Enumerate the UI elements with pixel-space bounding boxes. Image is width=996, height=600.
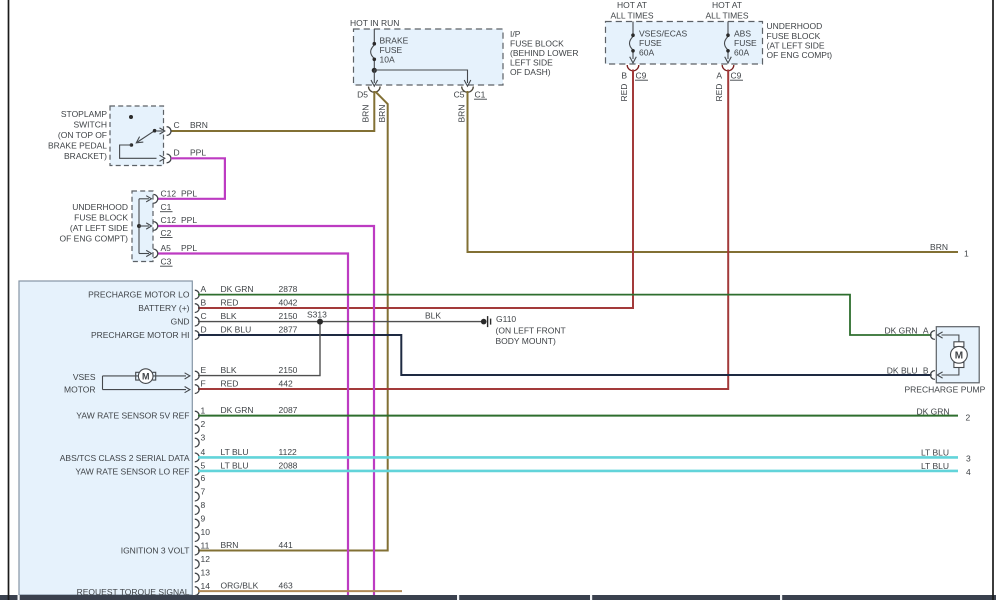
svg-text:BRN: BRN	[457, 105, 467, 123]
wire RED from A/C9 down to module pin F	[198, 70, 728, 390]
svg-text:2150: 2150	[279, 365, 298, 375]
svg-text:13: 13	[201, 567, 211, 577]
label HOT AT ALL TIMES (left)	[611, 0, 654, 21]
label I/P FUSE BLOCK (BEHIND LOWER LEFT SIDE OF DASH)	[510, 29, 578, 77]
wire DK GRN pin A to precharge pump A	[198, 295, 932, 335]
pin A5 arrow (C3)	[139, 250, 152, 256]
svg-text:7: 7	[201, 486, 206, 496]
underhood fuse block connectors (left, at left side of eng compt)	[132, 191, 153, 262]
svg-text:DK BLU: DK BLU	[887, 365, 918, 375]
svg-text:2: 2	[201, 419, 206, 429]
svg-text:DK GRN: DK GRN	[916, 406, 949, 416]
pin C arrow	[157, 128, 165, 134]
pin 6 connector arc	[195, 479, 199, 488]
svg-text:2087: 2087	[279, 405, 298, 415]
wire label 14: ORG/BLK 463	[221, 581, 293, 591]
svg-text:MOTOR: MOTOR	[64, 385, 95, 395]
wire label C: BLK 2150	[221, 311, 298, 321]
value label BRAKE FUSE 10A	[380, 36, 409, 65]
wire fuse output to D5 with arrow	[371, 70, 378, 86]
svg-text:ABS: ABS	[734, 28, 751, 38]
wire label 1: DK GRN 2087	[221, 405, 298, 415]
svg-text:PPL: PPL	[181, 243, 197, 253]
svg-text:LEFT SIDE: LEFT SIDE	[510, 58, 553, 68]
svg-text:C5: C5	[454, 90, 465, 100]
svg-text:FUSE: FUSE	[639, 38, 662, 48]
svg-text:FUSE BLOCK: FUSE BLOCK	[510, 39, 564, 49]
svg-text:PRECHARGE PUMP: PRECHARGE PUMP	[905, 385, 986, 395]
pin C12 connector arc (C2)	[153, 222, 157, 231]
precharge pump box	[936, 327, 979, 383]
svg-text:8: 8	[201, 500, 206, 510]
connector C5 of C1	[454, 87, 487, 100]
fuse VSES/ECAS FUSE 60A	[630, 22, 637, 64]
svg-text:I/P: I/P	[510, 29, 521, 39]
svg-text:UNDERHOOD: UNDERHOOD	[72, 202, 128, 212]
pin D arrow	[160, 155, 165, 161]
svg-text:VSES: VSES	[73, 372, 96, 382]
svg-text:11: 11	[201, 540, 210, 550]
svg-text:PRECHARGE MOTOR LO: PRECHARGE MOTOR LO	[88, 290, 190, 300]
svg-text:VSES/ECAS: VSES/ECAS	[639, 28, 688, 38]
svg-text:B: B	[201, 298, 207, 308]
svg-text:HOT IN RUN: HOT IN RUN	[350, 18, 399, 28]
svg-text:C9: C9	[731, 71, 742, 81]
svg-text:B: B	[923, 365, 929, 375]
svg-text:F: F	[201, 379, 206, 389]
pump internal wire motor to pin B	[942, 368, 959, 376]
svg-text:4042: 4042	[279, 298, 298, 308]
fuse BRAKE FUSE 10A	[371, 29, 376, 70]
wire BRN from C5 to right edge (exit 1)	[468, 91, 959, 252]
svg-text:C12: C12	[161, 215, 177, 225]
svg-text:BLK: BLK	[425, 310, 441, 320]
wire DK GRN pin 1 to right edge (exit 2)	[198, 415, 958, 417]
switch contact dot at pin C	[153, 129, 157, 133]
pin C connector arc	[195, 317, 199, 326]
I/P fuse block (behind lower left side of dash)	[354, 29, 504, 85]
pin D connector arc	[195, 331, 199, 340]
svg-text:FUSE: FUSE	[380, 45, 403, 55]
label UNDERHOOD FUSE BLOCK (AT LEFT SIDE OF ENG COMPt)	[767, 21, 833, 60]
fuse ABS FUSE 60A	[725, 22, 732, 64]
value label VSES/ECAS FUSE 60A	[639, 28, 688, 57]
svg-text:(AT LEFT SIDE: (AT LEFT SIDE	[767, 40, 825, 50]
svg-text:4: 4	[966, 467, 971, 477]
pin letter labels A-F	[201, 284, 207, 389]
pump pin B arrow	[937, 372, 942, 378]
switch contact dot (upper)	[129, 115, 133, 119]
svg-text:3: 3	[966, 454, 971, 464]
svg-text:LT BLU: LT BLU	[921, 461, 949, 471]
wire fuse output to C5 with arrow	[374, 70, 471, 86]
svg-text:(BEHIND LOWER: (BEHIND LOWER	[510, 48, 578, 58]
svg-text:YAW RATE SENSOR 5V REF: YAW RATE SENSOR 5V REF	[76, 411, 189, 421]
svg-text:RED: RED	[714, 84, 724, 102]
pin 7 connector arc	[195, 492, 199, 501]
wire BLK pin E up to S313	[198, 325, 320, 376]
internal bus wire	[138, 199, 140, 254]
svg-text:(ON TOP OF: (ON TOP OF	[58, 130, 107, 140]
connector B of C9	[621, 65, 648, 81]
svg-text:463: 463	[279, 581, 293, 591]
splice S313	[307, 310, 327, 325]
svg-text:2150: 2150	[279, 311, 298, 321]
svg-text:G110: G110	[496, 314, 516, 324]
svg-text:2877: 2877	[279, 325, 298, 335]
label pin C12 PPL of C2	[160, 215, 197, 238]
svg-text:ORG/BLK: ORG/BLK	[221, 581, 259, 591]
label VSES MOTOR	[64, 372, 96, 395]
svg-text:STOPLAMP: STOPLAMP	[61, 109, 107, 119]
svg-text:1: 1	[201, 405, 206, 415]
pin 11 connector arc	[195, 546, 199, 555]
EBCM module box	[19, 281, 192, 595]
svg-text:ABS/TCS CLASS 2 SERIAL DATA: ABS/TCS CLASS 2 SERIAL DATA	[60, 453, 190, 463]
junction dot on bus	[137, 224, 141, 228]
svg-text:441: 441	[279, 540, 293, 550]
svg-text:S313: S313	[307, 310, 327, 320]
svg-text:BLK: BLK	[221, 311, 237, 321]
wire label 11: BRN 441	[221, 540, 293, 550]
wire label 5: LT BLU 2088	[221, 460, 298, 470]
svg-text:C: C	[174, 120, 180, 130]
svg-text:UNDERHOOD: UNDERHOOD	[767, 21, 823, 31]
svg-text:ALL TIMES: ALL TIMES	[611, 11, 654, 21]
wire label F: RED 442	[221, 379, 293, 389]
svg-text:D: D	[201, 325, 207, 335]
pin 3 connector arc	[195, 438, 199, 447]
pin C12 arrow (C1)	[139, 196, 152, 202]
svg-text:A5: A5	[161, 243, 172, 253]
connector D5	[357, 87, 380, 100]
svg-text:LT BLU: LT BLU	[221, 460, 249, 470]
pin C connector arc	[167, 127, 171, 136]
pin 1 connector arc	[195, 411, 199, 420]
svg-text:2: 2	[966, 413, 971, 423]
wire PPL from switch D to underhood fuse block C12/C1	[158, 158, 225, 199]
svg-text:BRN: BRN	[361, 105, 371, 123]
svg-text:5: 5	[201, 461, 206, 471]
pin D connector arc	[167, 154, 171, 163]
svg-text:BATTERY (+): BATTERY (+)	[138, 303, 189, 313]
svg-text:HOT AT: HOT AT	[617, 0, 647, 10]
wire label D: DK BLU 2877	[221, 325, 298, 335]
pin F connector arc	[195, 385, 199, 394]
svg-text:442: 442	[279, 379, 293, 389]
pin 5 connector arc	[195, 467, 199, 476]
svg-text:PPL: PPL	[181, 215, 197, 225]
svg-text:FUSE BLOCK: FUSE BLOCK	[74, 213, 128, 223]
svg-text:RED: RED	[221, 298, 239, 308]
wire label 4: LT BLU 1122	[221, 447, 298, 457]
svg-text:60A: 60A	[734, 48, 749, 58]
wire label A: DK GRN 2878	[221, 284, 298, 294]
underhood fuse block (top right)	[606, 22, 763, 65]
label pin D PPL	[174, 147, 207, 157]
svg-text:4: 4	[201, 447, 206, 457]
svg-text:SWITCH: SWITCH	[73, 120, 107, 130]
svg-text:6: 6	[201, 473, 206, 483]
svg-text:BRAKE PEDAL: BRAKE PEDAL	[48, 141, 107, 151]
svg-text:IGNITION 3 VOLT: IGNITION 3 VOLT	[121, 546, 190, 556]
pin 2 connector arc	[195, 425, 199, 434]
svg-text:OF DASH): OF DASH)	[510, 67, 551, 77]
pin 10 connector arc	[195, 533, 199, 542]
svg-text:C1: C1	[161, 202, 172, 212]
svg-text:DK GRN: DK GRN	[884, 325, 917, 335]
stoplamp switch (on top of brake pedal bracket)	[110, 106, 164, 166]
svg-text:BRACKET): BRACKET)	[64, 151, 107, 161]
label STOPLAMP SWITCH (ON TOP OF BRAKE PEDAL BRACKET)	[48, 109, 107, 161]
pin 14 connector arc	[195, 587, 199, 596]
svg-text:D: D	[174, 147, 180, 157]
svg-text:A: A	[923, 325, 929, 335]
pin 13 connector arc	[195, 573, 199, 582]
pump pin B connector arc	[931, 371, 935, 380]
svg-text:B: B	[621, 71, 627, 81]
wire LT BLU pin 4 to right edge (exit 3)	[198, 456, 958, 459]
svg-text:A: A	[201, 284, 207, 294]
svg-text:12: 12	[201, 554, 211, 564]
svg-text:(AT LEFT SIDE: (AT LEFT SIDE	[70, 223, 128, 233]
svg-text:YAW RATE SENSOR LO REF: YAW RATE SENSOR LO REF	[75, 466, 189, 476]
pin 4 connector arc	[195, 453, 199, 462]
pin number labels 1-14	[201, 405, 211, 591]
svg-text:10A: 10A	[380, 55, 395, 65]
motor M symbol (VSES motor)	[136, 369, 156, 384]
module signal name labels	[60, 290, 190, 597]
svg-text:BODY MOUNT): BODY MOUNT)	[496, 336, 556, 346]
svg-text:(ON LEFT FRONT: (ON LEFT FRONT	[496, 325, 566, 335]
pin 9 connector arc	[195, 519, 199, 528]
svg-text:FUSE BLOCK: FUSE BLOCK	[767, 31, 821, 41]
ground G110 (on left front body mount)	[481, 314, 566, 346]
svg-text:BLK: BLK	[221, 365, 237, 375]
svg-text:2088: 2088	[279, 460, 298, 470]
svg-text:PPL: PPL	[190, 147, 206, 157]
svg-text:C: C	[201, 311, 207, 321]
wire BLK pin C to S313 and on to G110	[198, 321, 482, 323]
svg-text:BRN: BRN	[377, 105, 387, 123]
pin 12 connector arc	[195, 560, 199, 569]
svg-text:A: A	[716, 71, 722, 81]
svg-text:DK GRN: DK GRN	[221, 284, 254, 294]
svg-text:M: M	[955, 351, 963, 362]
pin A5 connector arc (C3)	[153, 249, 157, 258]
svg-text:BRAKE: BRAKE	[380, 36, 409, 46]
pump internal wire A to motor	[942, 335, 959, 342]
wire label E: BLK 2150	[221, 365, 298, 375]
label UNDERHOOD FUSE BLOCK (AT LEFT SIDE OF ENG COMPT)	[60, 202, 129, 244]
motor M symbol (precharge pump)	[951, 342, 968, 368]
pin C12 arrow (C2)	[139, 223, 152, 229]
svg-text:M: M	[142, 372, 150, 382]
svg-text:C9: C9	[636, 71, 647, 81]
pin C12 connector arc (C1)	[153, 194, 157, 203]
svg-text:BRN: BRN	[190, 120, 208, 130]
svg-text:1122: 1122	[279, 447, 298, 457]
pump pin A arrow	[937, 332, 942, 338]
switch contact dot (lower)	[130, 143, 134, 147]
svg-text:BRN: BRN	[221, 540, 239, 550]
wire RED from B/C9 down to module pin B (BATTERY +)	[198, 70, 633, 309]
switch arm with arrowhead	[136, 131, 154, 143]
svg-text:C3: C3	[161, 257, 172, 267]
svg-text:OF ENG COMPT): OF ENG COMPT)	[60, 234, 129, 244]
svg-text:E: E	[201, 365, 207, 375]
wire LT BLU pin 5 to right edge (exit 4)	[198, 470, 958, 473]
svg-text:HOT AT: HOT AT	[712, 0, 742, 10]
label DK GRN A at pump	[884, 325, 928, 335]
svg-text:D5: D5	[357, 90, 368, 100]
svg-text:OF ENG COMPt): OF ENG COMPt)	[767, 50, 833, 60]
junction dot inside I/P fuse block	[372, 68, 377, 73]
label pin C BRN	[174, 120, 208, 130]
wire ORG/BLK pin 14	[198, 590, 402, 592]
page frame left border	[8, 0, 10, 600]
svg-text:1: 1	[964, 249, 969, 259]
pin E connector arc	[195, 371, 199, 380]
label pin C12 PPL of C1	[160, 188, 197, 212]
svg-text:ALL TIMES: ALL TIMES	[706, 11, 749, 21]
svg-text:GND: GND	[171, 317, 190, 327]
svg-text:PRECHARGE MOTOR HI: PRECHARGE MOTOR HI	[91, 330, 190, 340]
wire label B: RED 4042	[221, 298, 298, 308]
svg-text:BRN: BRN	[930, 242, 948, 252]
bottom toolbar strip	[0, 595, 996, 600]
pump pin A connector arc	[931, 331, 935, 340]
svg-text:RED: RED	[619, 84, 629, 102]
page frame right border	[992, 0, 994, 600]
switch internal wire to pin D	[120, 145, 157, 158]
svg-text:60A: 60A	[639, 48, 654, 58]
svg-text:LT BLU: LT BLU	[921, 447, 949, 457]
svg-text:2878: 2878	[279, 284, 298, 294]
svg-text:DK GRN: DK GRN	[221, 405, 254, 415]
wire PPL from C12/C2 down to bottom	[158, 226, 374, 595]
svg-text:C1: C1	[475, 90, 486, 100]
svg-text:FUSE: FUSE	[734, 38, 757, 48]
pin B connector arc	[195, 304, 199, 313]
pin A connector arc	[195, 290, 199, 299]
label pin A5 PPL of C3	[160, 243, 197, 267]
wire BRN from D5 to stoplamp switch C	[171, 91, 374, 131]
svg-text:LT BLU: LT BLU	[221, 447, 249, 457]
pin 8 connector arc	[195, 506, 199, 515]
vses motor bracket wires with arrows to pins E and F	[103, 373, 190, 393]
wire BRN from D5 down to module pin 11 (IGNITION 3 VOLT)	[198, 92, 388, 551]
label DK BLU B at pump	[887, 365, 929, 375]
svg-text:PPL: PPL	[181, 188, 197, 198]
svg-text:3: 3	[201, 432, 206, 442]
svg-text:C12: C12	[161, 188, 177, 198]
svg-text:14: 14	[201, 581, 211, 591]
wire DK BLU pin D to precharge pump B	[198, 335, 932, 375]
svg-text:RED: RED	[221, 379, 239, 389]
svg-text:DK BLU: DK BLU	[221, 325, 252, 335]
svg-text:9: 9	[201, 513, 206, 523]
label HOT AT ALL TIMES (right)	[706, 0, 749, 21]
svg-text:10: 10	[201, 527, 211, 537]
wire PPL from A5/C3 down to bottom	[158, 254, 348, 596]
connector A of C9	[716, 65, 743, 81]
value label ABS FUSE 60A	[734, 28, 757, 57]
svg-text:C2: C2	[161, 228, 172, 238]
